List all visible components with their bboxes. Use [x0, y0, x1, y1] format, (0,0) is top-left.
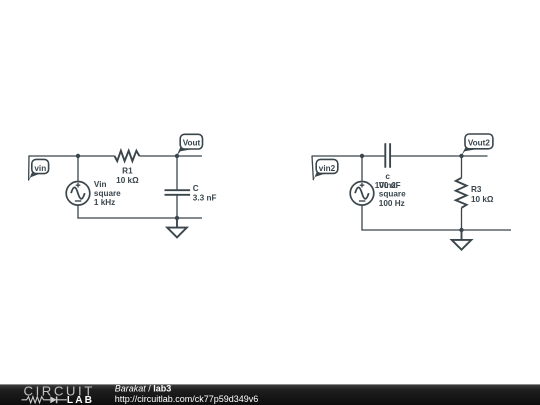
voltage source V1 plus: [76, 183, 81, 188]
wire: vin flag stem: [28, 156, 30, 181]
svg-text:1 kHz: 1 kHz: [94, 198, 115, 207]
svg-text:10 kΩ: 10 kΩ: [116, 176, 139, 185]
svg-text:Vout: Vout: [183, 139, 201, 148]
svg-text:Vout2: Vout2: [468, 139, 491, 148]
svg-text:square: square: [379, 190, 406, 199]
node A junction dot (left top): [76, 154, 80, 158]
wire: capacitor C top stem: [176, 156, 178, 190]
wire: vin2 flag stem: [312, 156, 313, 180]
svg-text:C: C: [193, 184, 199, 193]
svg-text:Vin: Vin: [94, 180, 107, 189]
footer bar: [0, 384, 540, 405]
voltage source V2 minus: [359, 200, 365, 202]
resistor R1 zigzag: [115, 151, 140, 161]
wire: R3 top stem: [461, 156, 463, 178]
svg-text:Vin2: Vin2: [379, 181, 397, 190]
flag Vout: [177, 134, 203, 156]
node Vout junction dot: [175, 154, 179, 158]
ground left stem: [176, 218, 178, 228]
ground right triangle: [452, 240, 472, 250]
svg-text:LAB: LAB: [67, 395, 94, 405]
capacitor C plates: [165, 190, 191, 195]
flag Vout2: [461, 134, 493, 156]
node right bottom junction dot: [459, 228, 463, 232]
resistor R3 zigzag: [456, 178, 467, 208]
voltage source V1 circle: [66, 182, 90, 206]
flag vin: [28, 159, 48, 181]
wire: left bottom rail: [77, 217, 202, 219]
wire: V1 top stem: [77, 156, 79, 182]
component symbols (thicker/darker): [66, 143, 471, 250]
voltage source V1 sine: [71, 187, 85, 198]
ground left triangle: [167, 228, 187, 238]
wire: left top rail right segment: [139, 155, 202, 157]
wire: capacitor C bottom stem: [176, 195, 178, 218]
svg-text:vin: vin: [34, 164, 46, 173]
wire: V1 bottom stem: [77, 205, 79, 218]
node Vout2 junction dot: [459, 154, 463, 158]
wire: V2 top stem: [361, 156, 363, 182]
svg-text:square: square: [94, 189, 121, 198]
svg-text:3.3 nF: 3.3 nF: [193, 194, 217, 203]
wire: right top rail right segment: [390, 155, 487, 157]
svg-text:R1: R1: [122, 167, 133, 176]
svg-text:vin2: vin2: [319, 164, 336, 173]
svg-text:R3: R3: [471, 185, 482, 194]
footer logo schematic line (resistor + diode): [22, 396, 67, 403]
node B junction dot (right top): [360, 154, 364, 158]
svg-text:http://circuitlab.com/ck77p59d: http://circuitlab.com/ck77p59d349v6: [115, 394, 259, 404]
capacitor c plates (right): [385, 143, 390, 168]
flag vin2: [313, 159, 338, 180]
wire: right bottom rail: [361, 229, 511, 231]
voltage source V2 sine: [355, 187, 369, 198]
ground right stem: [461, 230, 463, 240]
node left bottom junction dot: [175, 216, 179, 220]
wire: V2 bottom stem: [361, 205, 363, 230]
svg-text:Barakat / lab3: Barakat / lab3: [115, 383, 172, 393]
voltage source V1 minus: [75, 200, 81, 202]
svg-text:100 Hz: 100 Hz: [379, 199, 405, 208]
voltage source V2 circle: [350, 182, 374, 206]
wire: right top rail left segment: [312, 155, 386, 157]
wire: R3 bottom stem: [461, 208, 463, 230]
svg-text:c: c: [385, 172, 390, 181]
footer logo diode triangle: [50, 396, 56, 403]
voltage source V2 plus: [360, 183, 365, 188]
svg-text:10 kΩ: 10 kΩ: [471, 195, 494, 204]
wires (thin/light): [28, 156, 511, 230]
wire: left top rail left segment: [28, 155, 114, 157]
